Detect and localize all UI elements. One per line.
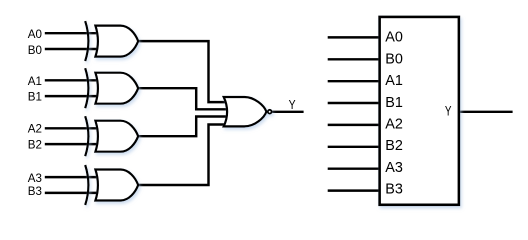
wire B2 input [45,143,98,145]
svg-text:A1: A1 [28,75,42,88]
wire block input B3 [328,189,380,191]
svg-text:B1: B1 [28,91,42,104]
wire NOR output Y [272,111,303,113]
wire B1 input [45,95,98,97]
wire block input B0 [328,58,380,60]
wire block input A1 [328,80,380,82]
wire A2 input [45,127,98,129]
svg-text:B3: B3 [385,182,403,198]
svg-text:A1: A1 [385,73,403,89]
wire XOR3 output to NOR input 3 [138,117,226,137]
wire B0 input [45,48,98,50]
svg-text:A0: A0 [28,28,42,41]
svg-text:B2: B2 [28,138,42,151]
svg-text:Y: Y [289,97,296,112]
wire block input B2 [328,146,380,148]
wire A3 input [45,176,98,178]
svg-text:B3: B3 [28,185,42,198]
svg-text:A3: A3 [385,160,403,176]
wire B3 input [45,192,98,194]
wire XOR4 output to NOR input 4 [138,125,226,186]
xor-gate U3 body [95,121,138,152]
xor-gate U4 input arc [85,165,88,205]
svg-text:B1: B1 [385,95,403,111]
svg-text:B2: B2 [385,138,403,154]
svg-text:B0: B0 [28,44,42,57]
xor-gate U1 input arc [85,21,88,61]
wire A0 input [45,32,98,34]
xor-gate U4 body [95,170,138,201]
svg-text:Y: Y [445,104,452,119]
xor-gate U2 input arc [85,68,88,108]
xor-gate U3 input arc [85,116,88,156]
svg-text:A2: A2 [28,123,42,136]
svg-text:A0: A0 [385,30,403,46]
wire XOR1 output to NOR input 1 [138,41,226,102]
wire A1 input [45,79,98,81]
block U6 comparator box [380,17,459,205]
wire block output Y [458,111,513,113]
wire block input A3 [328,167,380,169]
xor-gate U1 body [95,26,138,57]
svg-text:A2: A2 [385,117,403,133]
svg-text:A3: A3 [28,172,42,185]
nor-gate U5 body [224,97,267,126]
nor-gate U5 inversion bubble [268,110,272,114]
wire XOR2 output to NOR input 2 [138,88,226,109]
xor-gate U2 body [95,73,138,104]
svg-text:B0: B0 [385,51,403,67]
wire block input A0 [328,36,380,38]
wire block input A2 [328,124,380,126]
wire block input B1 [328,102,380,104]
